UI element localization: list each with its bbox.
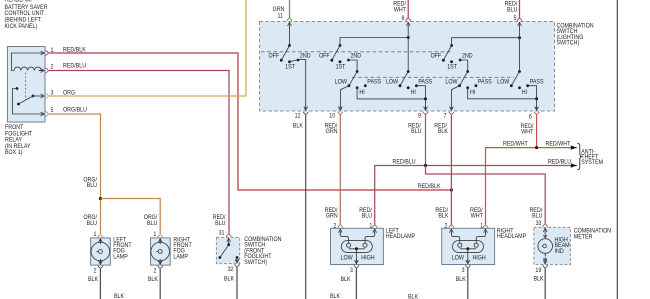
svg-text:9: 9	[418, 113, 421, 119]
combination meter box (high beam indicator)	[534, 227, 571, 264]
label ORG/BLU right fog lamp	[144, 215, 158, 227]
wire BLK foglight switch ground	[236, 267, 238, 299]
svg-text:2: 2	[51, 64, 54, 70]
wire RED/WHT to pin 8	[393, 0, 408, 18]
svg-text:11: 11	[277, 13, 283, 19]
pin 12	[293, 105, 308, 130]
pin 6	[521, 105, 540, 136]
pin 7	[434, 105, 454, 135]
svg-text:1: 1	[369, 223, 372, 229]
svg-text:RED/WHT: RED/WHT	[503, 141, 528, 147]
switch OFF/1ST/2ND no.2 (fed by pin 8)	[319, 38, 408, 72]
svg-text:BLK: BLK	[148, 277, 158, 283]
svg-text:BLK: BLK	[88, 277, 98, 283]
junction pin8 feed	[407, 36, 410, 39]
right headlamp box and bulb	[442, 228, 495, 264]
svg-text:RED/WHT: RED/WHT	[546, 141, 571, 147]
wire RED/BLU horizontal to anti-theft and left headlamp pin 1	[359, 159, 577, 225]
wire BLK right headlamp ground	[408, 268, 468, 299]
svg-text:1ST: 1ST	[447, 64, 457, 70]
left fog lamp bulb	[91, 239, 110, 264]
label RED/BLU at foglight switch	[213, 215, 226, 227]
svg-text:10: 10	[329, 113, 335, 119]
svg-text:BLK: BLK	[114, 294, 124, 299]
wire BLK high beam indicator ground	[544, 268, 546, 299]
svg-text:HI: HI	[522, 90, 528, 96]
svg-text:12: 12	[295, 113, 301, 119]
left front fog lamp box	[91, 238, 111, 265]
svg-text:BLK: BLK	[438, 213, 448, 219]
svg-text:PASS: PASS	[367, 79, 381, 85]
svg-text:BLU: BLU	[147, 221, 157, 227]
svg-text:HEADLAMP: HEADLAMP	[497, 234, 526, 240]
right fog lamp pin 2	[148, 259, 163, 283]
switch LOW/PASS/HI no.1	[335, 70, 426, 106]
relay coil	[12, 53, 42, 71]
svg-text:ORG: ORG	[63, 90, 76, 96]
switch LOW/PASS/HI no.3	[445, 70, 536, 106]
svg-text:KICK PANEL): KICK PANEL)	[5, 24, 38, 30]
junction pin5 feed	[518, 36, 521, 39]
svg-text:WHT: WHT	[394, 7, 407, 13]
relay box (front foglight relay)	[8, 47, 46, 123]
svg-text:BLK: BLK	[438, 129, 448, 135]
svg-text:LAMP: LAMP	[173, 254, 188, 260]
svg-text:32: 32	[228, 267, 234, 273]
svg-text:33: 33	[536, 221, 542, 227]
label combination switch front foglight switch	[244, 237, 281, 266]
pin 9	[408, 105, 428, 135]
svg-text:2ND: 2ND	[462, 53, 473, 59]
right headlamp pin 1	[480, 223, 488, 234]
wire BLK left headlamp ground	[330, 268, 356, 299]
wire RED/BLU to pin 5	[505, 0, 520, 18]
label battery saver control unit (text, first line cut)	[5, 0, 48, 30]
high beam indicator pin 19	[533, 258, 547, 282]
wire RED/BLK pin 7 to right headlamp pin 2	[435, 114, 451, 224]
wire ORG relay pin3 exits top	[48, 0, 246, 96]
svg-text:BOX 1): BOX 1)	[5, 150, 23, 156]
right front fog lamp box	[151, 238, 171, 265]
pin 8	[402, 16, 411, 28]
svg-text:RED/BLU: RED/BLU	[63, 63, 86, 69]
svg-text:BLK: BLK	[330, 294, 340, 299]
svg-text:LOW: LOW	[341, 255, 354, 261]
label RED/BLK near junction	[418, 184, 441, 190]
svg-text:1: 1	[480, 223, 483, 229]
svg-text:BLK: BLK	[456, 277, 466, 283]
svg-text:1: 1	[153, 232, 156, 238]
svg-text:RED/BLK: RED/BLK	[63, 47, 86, 53]
svg-text:SYSTEM: SYSTEM	[581, 160, 603, 166]
svg-text:HEADLAMP: HEADLAMP	[5, 0, 34, 4]
svg-text:LOW: LOW	[335, 79, 348, 85]
wire pin 8 vertical inside box	[407, 26, 409, 72]
switch LOW/PASS/HI no.4	[497, 70, 543, 106]
junction RED/BLK at pin7 wire	[450, 188, 453, 191]
mechanical linkage dashed line (off/1st/2nd row)	[261, 51, 453, 53]
left headlamp pin 2	[333, 223, 343, 234]
label left headlamp	[386, 228, 415, 240]
wire BLK right fog lamp ground	[159, 269, 161, 299]
svg-text:PASS: PASS	[418, 79, 432, 85]
svg-text:1: 1	[94, 232, 97, 238]
svg-text:ORG/BLU: ORG/BLU	[63, 107, 87, 113]
combination switch (front foglight switch) box	[216, 237, 239, 263]
svg-text:PASS: PASS	[530, 79, 544, 85]
svg-text:HEADLAMP: HEADLAMP	[386, 234, 415, 240]
svg-text:HIGH: HIGH	[361, 255, 374, 261]
label combination meter	[574, 228, 611, 240]
switch OFF/1ST/2ND no.1 (fed by pin 11)	[268, 26, 310, 106]
junction RED/WHT	[535, 146, 538, 149]
svg-text:3: 3	[462, 268, 465, 274]
foglight switch pin 32	[224, 257, 240, 282]
label combination switch lighting switch	[557, 23, 594, 47]
pin 11	[277, 13, 292, 28]
page border vertical line	[616, 0, 618, 299]
svg-text:2: 2	[333, 223, 336, 229]
svg-text:METER: METER	[574, 234, 593, 240]
svg-text:PASS: PASS	[478, 79, 492, 85]
pin 5	[514, 16, 523, 28]
foglight switch pin 31	[219, 230, 232, 243]
wire RED/BLU pin 9 down to junction	[425, 114, 427, 165]
anti-theft system arrows and brace	[571, 143, 603, 170]
svg-text:BLU: BLU	[362, 213, 372, 219]
svg-text:SWITCH): SWITCH)	[557, 40, 580, 46]
svg-text:2ND: 2ND	[350, 53, 361, 59]
svg-text:OFF: OFF	[319, 53, 330, 59]
svg-text:WHT: WHT	[521, 129, 534, 135]
right headlamp pin 2	[444, 223, 454, 234]
combination switch (lighting switch) box	[260, 22, 555, 112]
svg-text:HI: HI	[359, 90, 365, 96]
switch LOW/PASS/HI no.2	[386, 70, 432, 106]
svg-text:2ND: 2ND	[300, 53, 311, 59]
relay switch contacts	[13, 87, 39, 114]
svg-text:LOW: LOW	[386, 79, 399, 85]
svg-text:LOW: LOW	[452, 255, 465, 261]
label high beam ind	[555, 237, 570, 255]
mechanical linkage dashed line (low/pass/hi row)	[352, 76, 514, 78]
svg-text:RED/BLK: RED/BLK	[418, 184, 441, 190]
svg-text:HIGH: HIGH	[472, 255, 485, 261]
left headlamp pin 3	[340, 258, 359, 283]
svg-text:SWITCH): SWITCH)	[244, 260, 267, 266]
svg-text:BLU: BLU	[532, 213, 542, 219]
wire ORG/BLU branch to right fog lamp	[101, 199, 161, 235]
svg-text:GRN: GRN	[326, 129, 338, 135]
svg-text:1ST: 1ST	[336, 64, 346, 70]
svg-text:IND: IND	[555, 249, 564, 255]
svg-text:BLU: BLU	[87, 221, 97, 227]
high beam indicator pin 33	[536, 221, 548, 234]
junction HI3/PASS4 to pin 6	[535, 97, 538, 100]
svg-text:BLK: BLK	[293, 123, 303, 129]
svg-text:LOW: LOW	[445, 79, 458, 85]
high beam indicator lamp	[538, 231, 553, 264]
right headlamp pin 3	[456, 258, 471, 283]
svg-text:5: 5	[514, 16, 517, 22]
wire BLK pin 12 to bottom	[305, 114, 307, 299]
wire GRN to pin 11	[273, 0, 290, 18]
junction ORG/BLU	[99, 197, 102, 200]
svg-text:BLU: BLU	[87, 183, 97, 189]
svg-text:GRN: GRN	[326, 213, 338, 219]
right fog lamp bulb	[151, 239, 170, 264]
wire RED/WHT horizontal to anti-theft and right headlamp pin 1	[470, 141, 577, 225]
svg-text:OFF: OFF	[268, 53, 279, 59]
svg-text:BLK: BLK	[408, 294, 418, 299]
pin 10	[325, 105, 343, 135]
svg-text:WHT: WHT	[471, 213, 484, 219]
svg-text:BLK: BLK	[340, 277, 350, 283]
switch OFF/1ST/2ND no.3 (fed by pin 5)	[431, 38, 520, 72]
right fog lamp pin 1	[153, 232, 162, 244]
wire pin 5 vertical inside box	[519, 26, 521, 72]
svg-text:19: 19	[535, 268, 541, 274]
svg-text:BLU: BLU	[507, 7, 517, 13]
relay pin 1	[39, 48, 54, 56]
svg-text:2: 2	[94, 268, 97, 274]
svg-text:RED/BLU: RED/BLU	[548, 159, 571, 165]
wire BLK left fog lamp ground	[100, 269, 124, 299]
svg-text:8: 8	[402, 16, 405, 22]
left fog lamp pin 2	[88, 259, 103, 283]
svg-text:BLU: BLU	[411, 129, 421, 135]
svg-text:6: 6	[529, 114, 532, 120]
svg-text:LAMP: LAMP	[113, 254, 128, 260]
label ORG/BLU left fog lamp	[83, 215, 97, 227]
svg-text:HI: HI	[470, 90, 476, 96]
svg-text:BLK: BLK	[533, 276, 543, 282]
label left front fog lamp	[113, 237, 132, 261]
svg-text:3: 3	[350, 268, 353, 274]
left fog lamp pin 1	[94, 232, 103, 244]
svg-text:OFF: OFF	[431, 53, 442, 59]
wire ORG/BLU relay pin5 to fog lamps	[48, 107, 100, 234]
junction RED/BLU	[424, 164, 427, 167]
svg-text:7: 7	[444, 113, 447, 119]
svg-text:1ST: 1ST	[285, 64, 295, 70]
svg-text:2: 2	[153, 268, 156, 274]
left headlamp box and bulb	[331, 228, 384, 264]
relay coil-to-contact dashed link	[25, 73, 27, 100]
relay pin 2	[39, 64, 54, 73]
label right headlamp	[497, 228, 526, 240]
svg-text:BLK: BLK	[224, 276, 234, 282]
wire RED/WHT pin 6 down to junction	[536, 114, 538, 147]
svg-text:HI: HI	[411, 90, 417, 96]
wire RED/BLU branch to high beam indicator pin 33	[426, 166, 546, 224]
left headlamp pin 1	[369, 223, 377, 234]
relay pin 3	[39, 90, 54, 99]
relay pin 5	[39, 108, 54, 117]
wire RED/BLU relay pin2 to foglight switch pin31	[48, 63, 229, 234]
svg-text:5: 5	[51, 108, 54, 114]
svg-text:BLU: BLU	[215, 221, 225, 227]
label right front fog lamp	[173, 237, 192, 261]
label front foglight relay	[5, 125, 33, 157]
svg-text:31: 31	[219, 230, 225, 236]
svg-text:RED/BLU: RED/BLU	[393, 159, 416, 165]
svg-text:LOW: LOW	[497, 79, 510, 85]
svg-text:2: 2	[444, 223, 447, 229]
wire RED/BLK relay pin1 to junction	[48, 47, 450, 190]
wire RED/GRN pin 10 to left headlamp pin 2	[325, 114, 341, 224]
foglight switch contacts	[219, 241, 239, 262]
junction HI1/PASS2 to pin 9	[424, 97, 427, 100]
